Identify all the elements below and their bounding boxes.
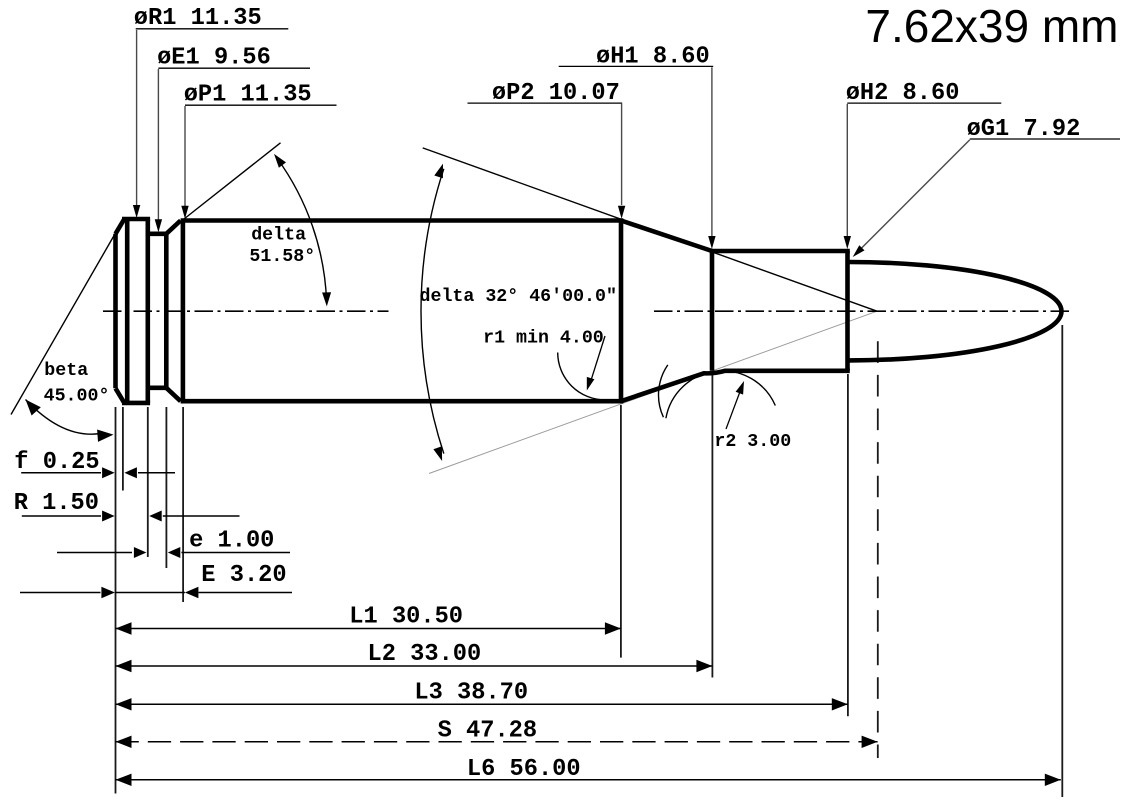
svg-text:øH2 8.60: øH2 8.60 [846,80,960,107]
svg-text:L3 38.70: L3 38.70 [414,680,528,707]
svg-text:øP1 11.35: øP1 11.35 [184,81,312,108]
svg-text:L2 33.00: L2 33.00 [368,641,482,668]
svg-text:øH1 8.60: øH1 8.60 [596,43,710,70]
svg-text:beta: beta [44,361,88,381]
svg-text:L6 56.00: L6 56.00 [467,756,581,783]
svg-text:r1 min 4.00: r1 min 4.00 [483,328,604,348]
svg-text:51.58°: 51.58° [249,247,315,267]
svg-text:7.62x39 mm: 7.62x39 mm [865,0,1118,52]
svg-text:R 1.50: R 1.50 [14,490,99,517]
svg-text:øG1 7.92: øG1 7.92 [967,116,1081,143]
svg-text:delta 32° 46'00.0": delta 32° 46'00.0" [420,287,617,307]
svg-text:r2 3.00: r2 3.00 [714,432,791,452]
svg-text:e 1.00: e 1.00 [189,527,274,554]
svg-text:delta: delta [251,225,306,245]
svg-text:L1 30.50: L1 30.50 [349,603,463,630]
svg-text:øE1 9.56: øE1 9.56 [157,44,271,71]
svg-text:f 0.25: f 0.25 [14,449,99,476]
svg-text:øR1 11.35: øR1 11.35 [134,5,262,32]
svg-text:øP2 10.07: øP2 10.07 [492,80,620,107]
svg-text:E 3.20: E 3.20 [201,562,286,589]
svg-text:S 47.28: S 47.28 [438,718,538,745]
svg-text:45.00°: 45.00° [44,387,110,407]
